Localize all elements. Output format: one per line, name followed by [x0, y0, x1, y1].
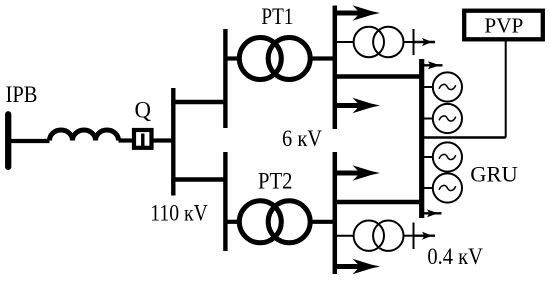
- transformer PT1: [239, 38, 281, 80]
- svg-text:IPB: IPB: [6, 82, 38, 107]
- wire PT1 secondary to 6 kV bus: [310, 56, 334, 60]
- wire GRU bus to generator G3: [424, 156, 433, 158]
- generator G2: [433, 104, 462, 133]
- feeder arrow 1: [334, 5, 380, 21]
- jumper 6 kV bus to GRU bus (top): [334, 74, 422, 79]
- tick bar T2: [413, 223, 415, 250]
- block PVP: [464, 11, 543, 40]
- wire PT1 primary stub: [225, 56, 240, 60]
- svg-text:PT1: PT1: [261, 4, 293, 29]
- feeder arrow 2: [334, 98, 380, 114]
- small arrow GRU top: [422, 61, 443, 69]
- reactor L (current-limiting inductor, 3 arcs): [50, 130, 119, 141]
- bus 6 kV lower section: [333, 152, 338, 274]
- svg-text:PVP: PVP: [484, 14, 523, 38]
- bus IPB terminal bar: [5, 114, 11, 167]
- jumper 110 kV bus to PT2 primary bus: [173, 177, 226, 181]
- transformer PT2: [239, 201, 281, 243]
- wire reactor to breaker Q: [119, 138, 133, 142]
- jumper 6 kV bus to GRU bus (bottom): [334, 200, 422, 205]
- bus 6 kV upper section: [333, 6, 338, 130]
- svg-text:Q: Q: [135, 98, 152, 123]
- bus GRU: [419, 59, 424, 218]
- wire PVP link horizontal to GRU bus: [422, 136, 506, 139]
- svg-text:0.4 кV: 0.4 кV: [427, 244, 483, 269]
- wire GRU bus to generator G2: [424, 118, 433, 120]
- station transformer T1: [354, 27, 384, 57]
- generator G3: [433, 142, 462, 171]
- svg-text:PT2: PT2: [258, 168, 293, 193]
- wire breaker Q to 110 kV bus: [152, 138, 174, 142]
- wire 6 kV bus to station transformer T1: [334, 41, 355, 43]
- small arrow T2: [414, 232, 436, 240]
- small arrow GRU bottom: [422, 209, 442, 217]
- wire IPB bar to reactor: [8, 139, 50, 143]
- svg-text:110 кV: 110 кV: [150, 201, 208, 226]
- bus PT2 primary: [223, 152, 227, 251]
- wire PVP link vertical: [505, 41, 507, 138]
- breaker Q box: [134, 130, 152, 148]
- svg-text:GRU: GRU: [470, 161, 518, 186]
- wire PT2 secondary to 6 kV bus: [310, 220, 334, 224]
- wire T2 to tick: [403, 235, 414, 237]
- wire 6 kV bus to station transformer T2: [334, 235, 355, 237]
- station transformer T2 (0.4 kV): [354, 221, 384, 251]
- svg-text:6 кV: 6 кV: [282, 126, 322, 151]
- breaker Q inner tick: [141, 134, 144, 147]
- jumper 110 kV bus to PT1 primary bus: [173, 100, 226, 104]
- bus 110 kV: [171, 88, 175, 196]
- generator G4: [433, 173, 462, 202]
- tick bar T1: [413, 29, 415, 55]
- bus PT1 primary: [223, 29, 227, 128]
- wire PT2 primary stub: [225, 220, 240, 224]
- small arrow T1: [414, 38, 436, 46]
- wire GRU bus to generator G1: [424, 86, 433, 88]
- wire T1 to tick: [403, 41, 414, 43]
- feeder arrow 3: [334, 165, 380, 181]
- wire GRU bus to generator G4: [424, 187, 433, 189]
- feeder arrow 4: [334, 259, 380, 275]
- generator G1: [433, 72, 462, 101]
